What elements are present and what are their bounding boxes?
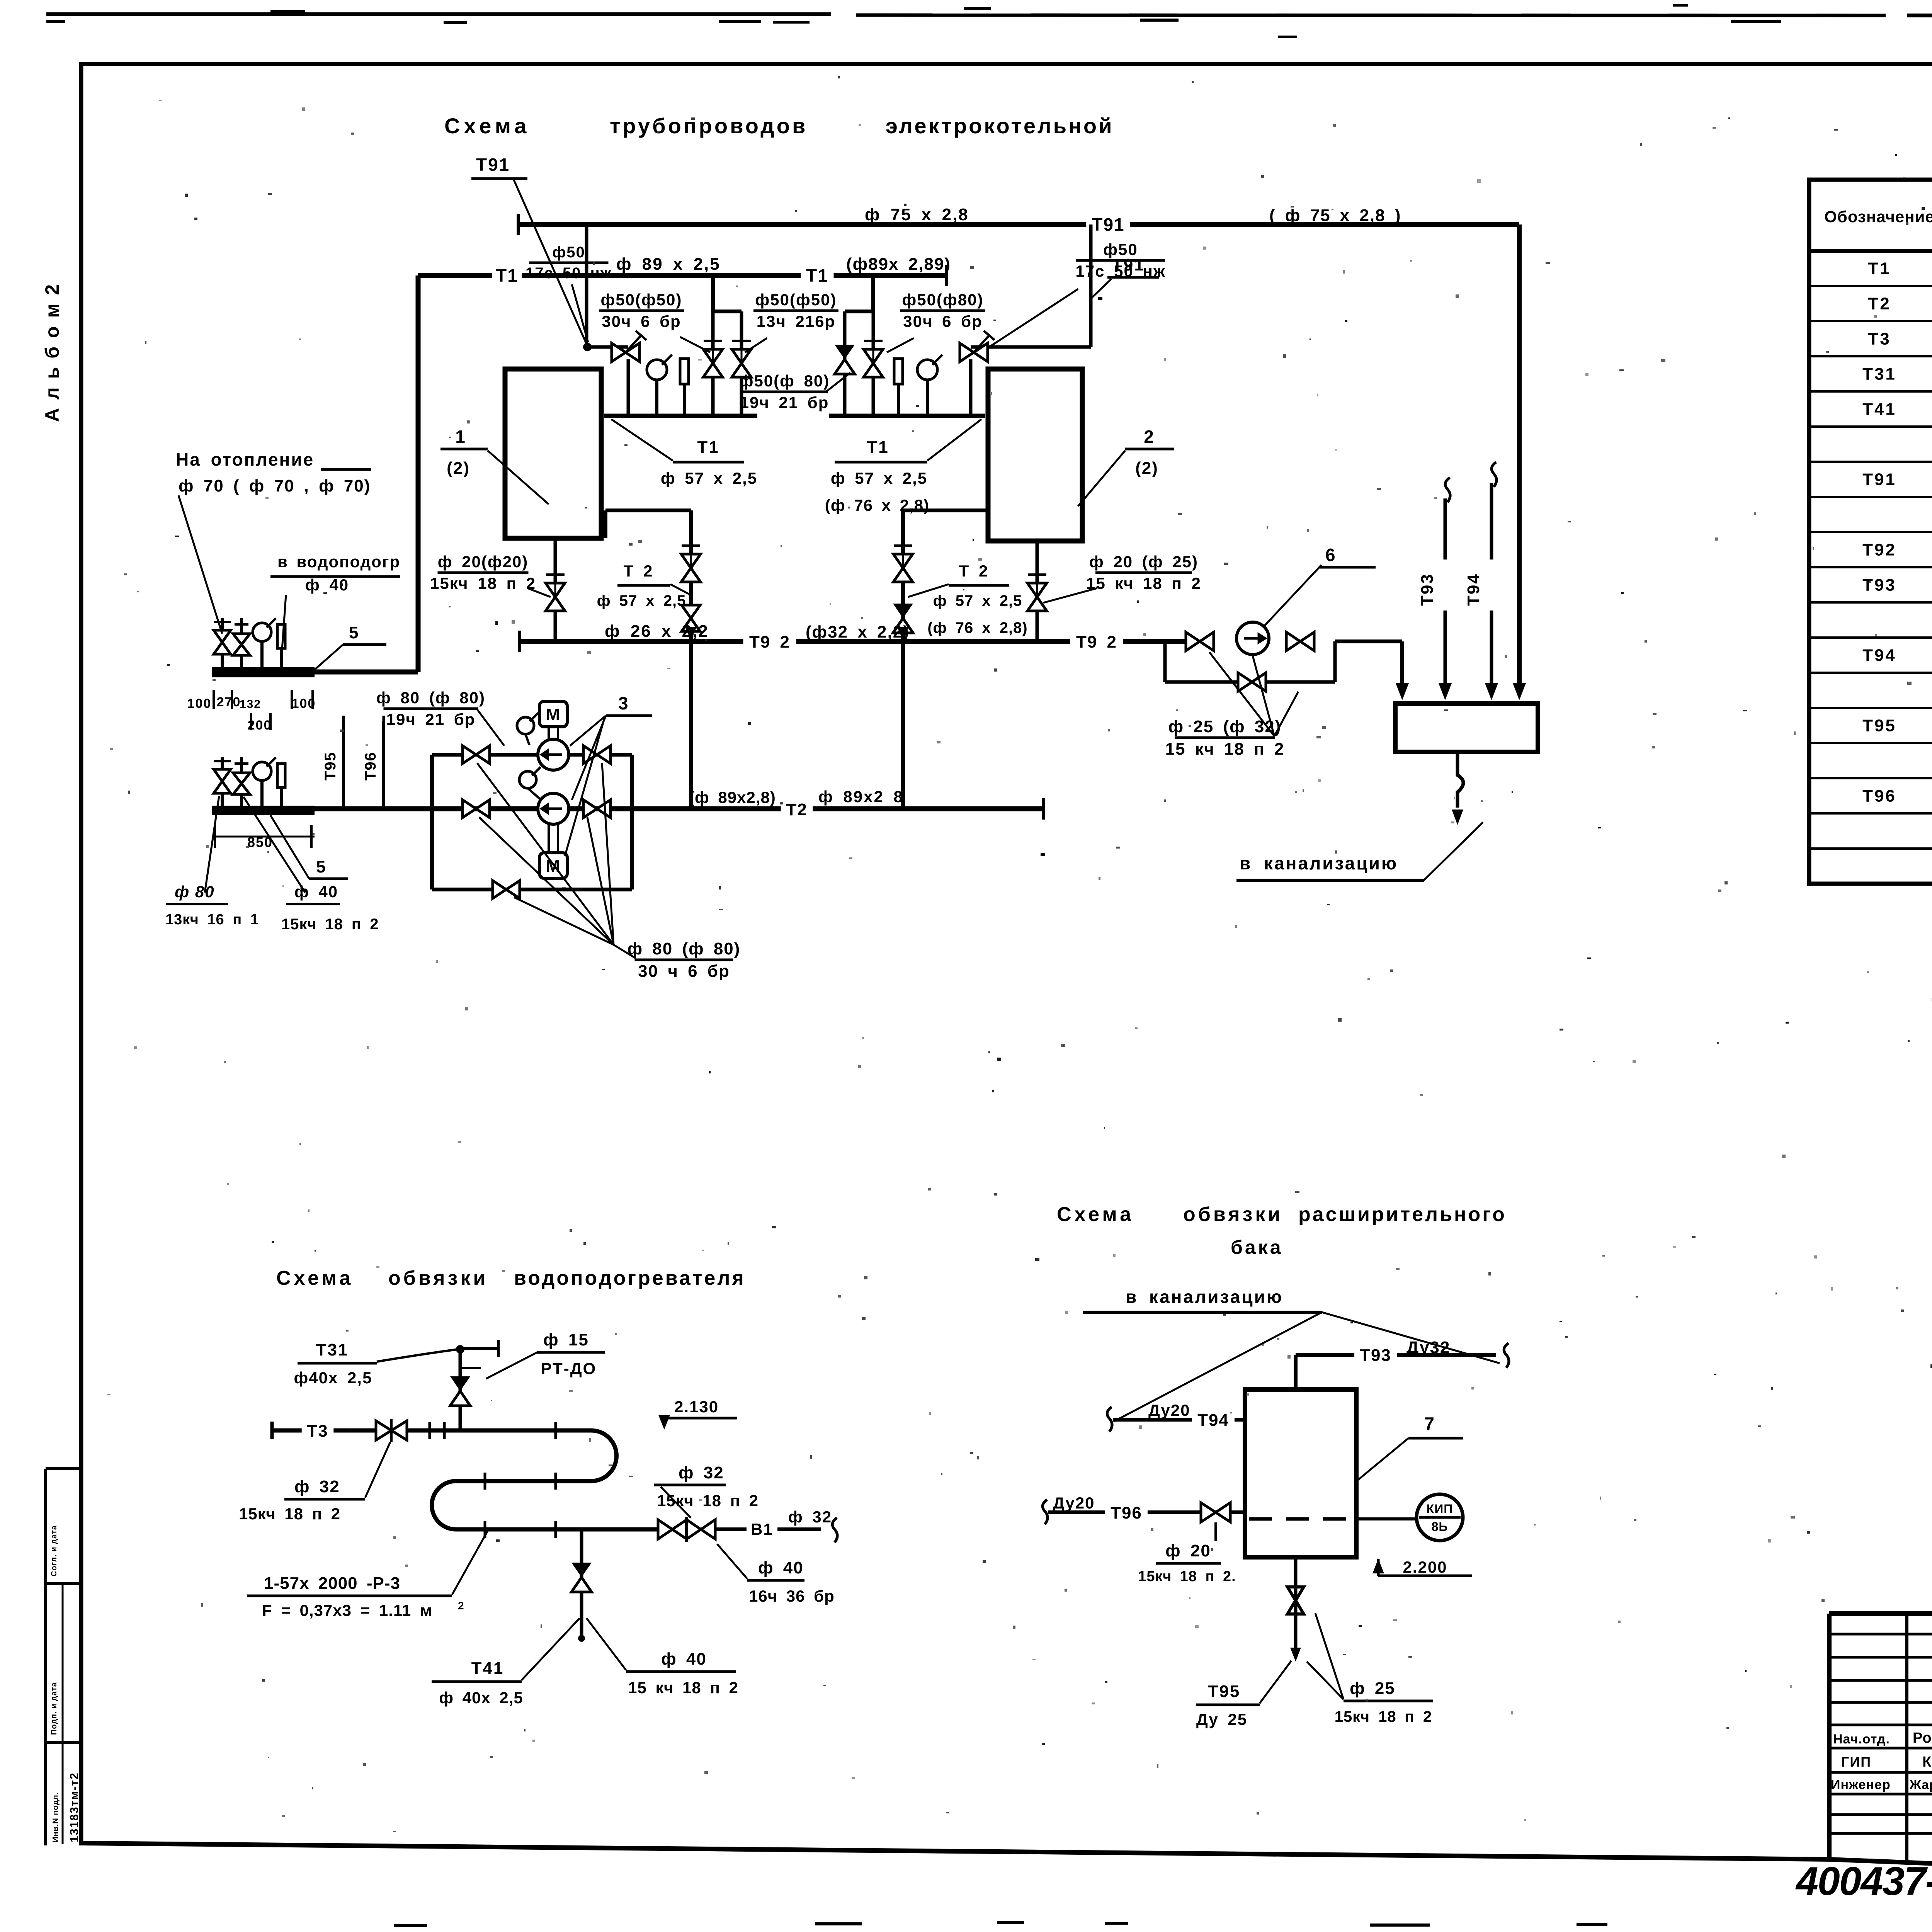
label phi89 on T1 [616, 255, 721, 274]
label phi89-2 on T1 [846, 255, 951, 274]
tank water level [1249, 1517, 1352, 1521]
svg-text:Т91: Т91 [476, 155, 510, 175]
heating manifold valves [214, 622, 250, 655]
gauge boiler2 [917, 355, 942, 416]
riser b2 a [835, 311, 855, 416]
label phi32 on T92 [806, 622, 910, 641]
thermometer boiler2 [894, 359, 903, 416]
label T95 du25 [1196, 1661, 1291, 1728]
svg-text:ф 89х2 8: ф 89х2 8 [818, 787, 904, 806]
svg-text:2: 2 [458, 1600, 465, 1612]
wire T92 to tank [1335, 641, 1409, 700]
boiler 1 item label 1/(2) [440, 427, 549, 504]
svg-text:ф 32: ф 32 [679, 1463, 724, 1482]
boiler2 instrument manifold [829, 414, 985, 418]
label phi25(f32) pump [1165, 652, 1298, 759]
svg-text:8Ь: 8Ь [1432, 1520, 1448, 1534]
table row line 12 [1809, 672, 1932, 674]
pipe list table frame [1809, 180, 1932, 884]
table row 3 content [1868, 330, 1932, 349]
svg-text:Ду20: Ду20 [1148, 1401, 1190, 1419]
coil right bend [591, 1430, 617, 1481]
svg-text:Т94: Т94 [1464, 573, 1483, 606]
wire T2 [311, 798, 1043, 820]
label phi89-2 on T2 [818, 787, 904, 806]
svg-text:Инженер: Инженер [1831, 1777, 1891, 1792]
table row 14 content [1862, 716, 1932, 735]
svg-text:ф 25: ф 25 [1350, 1679, 1395, 1698]
table row line 10 [1809, 601, 1932, 604]
svg-text:ф50(ф50): ф50(ф50) [601, 291, 682, 309]
svg-text:F = 0,37х3 = 1.11 м: F = 0,37х3 = 1.11 м [262, 1601, 432, 1619]
label T93 tank [1354, 1338, 1464, 1366]
pump 6 bypass [1165, 641, 1335, 691]
wire boiler1 drain [546, 538, 565, 641]
svg-text:ф 32: ф 32 [294, 1477, 340, 1496]
coil left bend [432, 1481, 456, 1529]
label elev 2.130 [658, 1398, 737, 1430]
svg-text:Т92: Т92 [1862, 541, 1896, 560]
table row 2 content [1868, 294, 1932, 313]
svg-text:( ф 75 х 2,8 ): ( ф 75 х 2,8 ) [1269, 206, 1401, 225]
heating manifold risers [222, 618, 281, 667]
hot water manifold bar [212, 806, 315, 815]
label T91 top-left with leader [471, 155, 586, 342]
svg-text:Т3: Т3 [307, 1422, 328, 1440]
svg-text:Схема: Схема [276, 1267, 354, 1289]
svg-text:30ч 6 бр: 30ч 6 бр [903, 312, 982, 330]
label elev 2.200 [1372, 1558, 1472, 1576]
pump block bottom valve [493, 881, 520, 898]
sheet border outer top [46, 14, 1932, 16]
svg-text:15 кч 18 п 2: 15 кч 18 п 2 [628, 1679, 738, 1697]
label phi32 right out [788, 1508, 832, 1526]
hot water manifold gauge [253, 757, 276, 781]
label 6 [1320, 545, 1376, 567]
label 5 lower [270, 815, 348, 879]
svg-text:400437-02: 400437-02 [1795, 1859, 1932, 1904]
motor top [539, 701, 567, 739]
label T96 rotated [362, 752, 379, 781]
table row line 5 [1809, 425, 1932, 428]
svg-text:Т93: Т93 [1360, 1346, 1391, 1365]
label phi25 15kch [1307, 1613, 1433, 1725]
coil level 1 [272, 1422, 591, 1439]
table row line 9 [1809, 566, 1932, 568]
svg-text:Ду32: Ду32 [1406, 1338, 1450, 1357]
signal pipe T94 [1485, 462, 1498, 700]
tank drain to sewer [1452, 752, 1463, 825]
label phi20(f20) left [430, 553, 551, 597]
svg-text:Т31: Т31 [316, 1340, 349, 1359]
svg-text:А л ь б о м 2: А л ь б о м 2 [41, 283, 63, 422]
svg-text:Т95: Т95 [1862, 716, 1896, 735]
main schematic title [444, 114, 1114, 138]
label phi40 15kch [243, 797, 379, 933]
svg-text:Схема: Схема [444, 114, 530, 138]
table row 12 content [1862, 646, 1932, 665]
signature row gip [1841, 1752, 1932, 1770]
pump block enclosure [432, 755, 632, 889]
svg-text:обвязки: обвязки [1183, 1203, 1283, 1226]
heating manifold bar [212, 667, 315, 677]
coil level 3 [456, 1527, 658, 1532]
label T92 on line 2 [1070, 633, 1123, 652]
svg-text:Ковалев: Ковалев [1922, 1754, 1932, 1770]
left margin stamp text 3 [51, 1772, 81, 1842]
label phi26 on T92 [605, 622, 709, 641]
svg-text:2: 2 [1144, 427, 1155, 447]
svg-text:13183тм-т2: 13183тм-т2 [68, 1772, 81, 1842]
table row line 13 [1809, 707, 1932, 709]
svg-text:15кч 18 п 2: 15кч 18 п 2 [239, 1505, 340, 1523]
coil section ticks [430, 1422, 556, 1538]
svg-text:ф 57 х 2,5: ф 57 х 2,5 [831, 469, 927, 487]
svg-text:Т1: Т1 [1868, 259, 1891, 278]
svg-text:Ду 25: Ду 25 [1196, 1710, 1247, 1728]
label v kanalizaciyu tank [1083, 1287, 1500, 1422]
gauge top [517, 713, 538, 745]
svg-text:На отопление: На отопление [176, 449, 314, 469]
label T91 on line [1086, 214, 1130, 235]
svg-text:5: 5 [349, 623, 359, 642]
label phi50(f80) 19ch21br centre [739, 372, 850, 412]
svg-text:водоподогревателя: водоподогревателя [514, 1267, 746, 1289]
label T96 tank [1049, 1494, 1148, 1523]
pump top [538, 739, 569, 770]
label phi20(f25) right [1043, 553, 1201, 603]
label phi89-1 on T2 [689, 788, 776, 806]
svg-text:ф 75 х 2,8: ф 75 х 2,8 [865, 205, 969, 224]
label phi75-2 on T91 [1269, 206, 1401, 225]
pipe list table header row line [1809, 249, 1932, 253]
label 3 with leaders [565, 693, 652, 856]
svg-text:Схема: Схема [1057, 1203, 1134, 1226]
svg-text:трубопроводов: трубопроводов [610, 114, 808, 138]
heating manifold dims [187, 695, 316, 733]
riser b1 a [703, 311, 723, 416]
hot water manifold risers [222, 757, 281, 806]
boiler 2 item label 2/(2) [1078, 427, 1174, 506]
label T2 phi57 right [908, 562, 1028, 636]
svg-text:132: 132 [240, 698, 261, 711]
pump unit 6 right valve [1286, 632, 1314, 651]
handwritten archive number [1795, 1859, 1932, 1904]
svg-text:ф 20(ф20): ф 20(ф20) [438, 553, 529, 571]
gauge boiler1 [647, 355, 672, 416]
svg-text:М: М [546, 705, 561, 724]
svg-text:ф 20 (ф 25): ф 20 (ф 25) [1089, 553, 1198, 571]
svg-text:Т93: Т93 [1862, 576, 1896, 595]
svg-text:электрокотельной: электрокотельной [886, 114, 1114, 138]
wire boiler2 drain [1027, 541, 1047, 641]
label 7 with leader [1357, 1413, 1463, 1481]
svg-text:Т96: Т96 [1111, 1503, 1142, 1522]
svg-text:Т1: Т1 [867, 438, 889, 457]
title block signature columns [1907, 1614, 1932, 1871]
boiler1 instrument manifold [604, 414, 757, 418]
label phi80 19ch21br [376, 689, 504, 746]
svg-text:Т1: Т1 [697, 438, 719, 457]
svg-text:Т31: Т31 [1862, 365, 1896, 384]
gauge mid [519, 767, 541, 800]
table row 4 content [1862, 365, 1932, 384]
heater outlet valves [658, 1517, 715, 1542]
sheet border inner top [79, 62, 1932, 66]
svg-text:ф 26 х 2,2: ф 26 х 2,2 [605, 622, 709, 641]
svg-text:ф 40: ф 40 [758, 1558, 804, 1577]
svg-text:ф 80: ф 80 [175, 883, 215, 901]
svg-text:ф50(ф80): ф50(ф80) [902, 291, 984, 309]
wire T95 riser [342, 716, 345, 809]
svg-text:обвязки: обвязки [388, 1267, 488, 1289]
table row line 2 [1809, 320, 1932, 322]
wire T91 header [518, 214, 1519, 235]
label phi50(f50) 13ch216r [745, 291, 838, 352]
wire T1 [418, 265, 947, 286]
svg-text:19ч 21 бр: 19ч 21 бр [740, 393, 829, 412]
label T1 on line 1 [492, 265, 522, 286]
label T1 phi57 left [611, 419, 757, 487]
table row 7 content [1862, 470, 1932, 489]
heating manifold dim ticks [214, 690, 313, 730]
signature row engineer [1831, 1777, 1932, 1792]
svg-text:ф50(ф50): ф50(ф50) [755, 291, 837, 309]
svg-text:Т41: Т41 [471, 1659, 504, 1678]
outlet line B1 [715, 1518, 837, 1543]
svg-text:Т93: Т93 [1418, 573, 1437, 606]
wire b1 return drop [681, 510, 701, 809]
wire T96 riser [382, 716, 385, 809]
valve safety boiler1 [612, 331, 646, 362]
svg-text:(2): (2) [447, 459, 470, 478]
svg-text:Роменский: Роменский [1913, 1730, 1932, 1746]
dim 850 [212, 825, 315, 850]
label na otoplenie [176, 449, 371, 634]
svg-text:в канализацию: в канализацию [1126, 1287, 1283, 1307]
label T31 phi40 [294, 1340, 458, 1387]
svg-text:Т3: Т3 [1868, 330, 1891, 349]
riser safety to manifold b2 [969, 359, 973, 416]
valve safety boiler2 [960, 331, 995, 362]
pump 6 [1236, 565, 1321, 655]
svg-text:5: 5 [316, 857, 326, 876]
svg-text:ГИП: ГИП [1841, 1754, 1871, 1770]
overflow T93 line [1296, 1343, 1509, 1389]
label T1 on line 2 [801, 265, 833, 286]
bottom margin scan dashes [394, 1921, 1607, 1927]
coil level 2 [456, 1479, 591, 1483]
table row 5 content [1862, 400, 1932, 419]
svg-text:2.200: 2.200 [1403, 1558, 1447, 1576]
svg-text:(ф 89х2,8): (ф 89х2,8) [689, 788, 776, 806]
svg-text:19ч 21 бр: 19ч 21 бр [386, 710, 476, 728]
label phi50(f50) 30ch6br left [599, 291, 710, 352]
album label [41, 283, 63, 422]
svg-text:1-57х 2000 -Р-3: 1-57х 2000 -Р-3 [264, 1574, 400, 1593]
pump unit 6 left valve [1186, 632, 1214, 651]
heater size label [247, 1531, 488, 1619]
pump block top row valves [463, 746, 611, 764]
table row 1 content [1868, 259, 1932, 278]
svg-text:расширительного: расширительного [1298, 1203, 1507, 1226]
svg-text:15кч 18 п 2: 15кч 18 п 2 [1335, 1708, 1432, 1725]
svg-text:в водоподогр: в водоподогр [277, 553, 400, 571]
svg-text:Т1: Т1 [806, 265, 828, 286]
svg-text:в канализацию: в канализацию [1240, 853, 1398, 873]
label k vodopodogr [270, 553, 400, 649]
circulation T96 line [1043, 1500, 1245, 1524]
drain collection tank [1395, 704, 1538, 752]
label phi40 16ch36br [717, 1544, 835, 1605]
label T3 on line [302, 1422, 334, 1441]
svg-text:15кч 18 п 2: 15кч 18 п 2 [657, 1492, 759, 1510]
hot water manifold thermometer [277, 764, 285, 787]
svg-text:Т41: Т41 [1862, 400, 1896, 419]
svg-text:ф 40: ф 40 [661, 1650, 707, 1668]
left margin stamp text 1 [50, 1525, 58, 1577]
wire T91 drop to tank [1513, 224, 1526, 700]
pump mid [538, 793, 569, 824]
label phi75 on T91 [865, 205, 969, 224]
svg-text:Т9 2: Т9 2 [1076, 633, 1117, 651]
svg-text:6: 6 [1325, 545, 1336, 565]
svg-text:Т2: Т2 [786, 800, 807, 819]
svg-text:ф50(ф 80): ф50(ф 80) [739, 372, 830, 390]
motor bottom [539, 824, 567, 878]
signature row nachotd [1833, 1725, 1932, 1747]
svg-text:(ф 76 х 2,8): (ф 76 х 2,8) [927, 619, 1027, 636]
sheet border bottom left segment [81, 1843, 1830, 1859]
boiler 1 [505, 369, 601, 538]
svg-text:(ф 76 х 2,8): (ф 76 х 2,8) [825, 496, 929, 514]
riser b2 b [864, 311, 883, 416]
label phi32 15kch left [239, 1442, 390, 1523]
sheet border inner left [79, 64, 83, 1845]
svg-text:Подп. и дата: Подп. и дата [50, 1682, 58, 1735]
table row 16 content [1862, 787, 1932, 806]
top margin scan dashes [46, 4, 1932, 38]
svg-text:270: 270 [217, 695, 241, 709]
svg-text:Т91: Т91 [1092, 214, 1124, 235]
svg-text:ф 15: ф 15 [543, 1330, 589, 1349]
svg-text:Т1: Т1 [496, 265, 518, 286]
label phi50(f80) 30ch6br right [887, 291, 985, 352]
table row line 14 [1809, 742, 1932, 744]
svg-text:ф 89 х 2,5: ф 89 х 2,5 [616, 255, 721, 274]
label T1 phi57 right [825, 419, 981, 514]
svg-text:бака: бака [1231, 1236, 1283, 1258]
signal T94 line [1107, 1407, 1245, 1432]
svg-text:200: 200 [248, 718, 272, 733]
pump block mid row valves [463, 800, 611, 818]
svg-text:ф 32: ф 32 [788, 1508, 832, 1526]
label phi40 15kch drain [587, 1618, 738, 1697]
left margin stamp text 2 [50, 1682, 58, 1735]
label T91 right with leader [1092, 255, 1159, 298]
table row line 15 [1809, 777, 1932, 779]
label phi20 tank [1138, 1522, 1236, 1585]
wire T91 drop right [971, 224, 1091, 347]
node T91-valve junction [583, 343, 628, 351]
wire T1 left drop to manifold [311, 276, 418, 672]
label B1 [747, 1520, 777, 1539]
svg-text:Т95: Т95 [322, 752, 339, 781]
water heater title [276, 1267, 746, 1289]
left margin stamp strip [46, 1469, 81, 1845]
svg-text:Согл. и дата: Согл. и дата [50, 1525, 58, 1577]
label T94 tank [1144, 1401, 1235, 1430]
expansion tank title [1057, 1203, 1507, 1258]
boiler 2 [988, 369, 1082, 541]
svg-text:7: 7 [1424, 1413, 1435, 1434]
regulator riser [450, 1340, 498, 1430]
table row line 7 [1809, 496, 1932, 498]
table row 9 content [1862, 541, 1932, 560]
svg-text:Т 2: Т 2 [959, 562, 989, 580]
svg-text:РТ-ДО: РТ-ДО [541, 1359, 597, 1378]
table row line 17 [1809, 847, 1932, 850]
wire b1 return elbow [605, 510, 691, 538]
label phi50 17s50nzh right [989, 240, 1166, 347]
title block signature rows [1829, 1634, 1932, 1833]
label 5 upper [314, 623, 386, 670]
heating manifold gauge [253, 618, 276, 641]
svg-text:КИП: КИП [1427, 1502, 1453, 1516]
header b2 [845, 310, 873, 313]
table row 10 content [1862, 576, 1932, 595]
instrument KIP [1356, 1494, 1463, 1541]
label T92 on line 1 [743, 633, 796, 652]
pipe list header labels [1824, 204, 1932, 226]
svg-text:100: 100 [187, 696, 212, 711]
svg-text:15кч 18 п 2: 15кч 18 п 2 [430, 574, 536, 592]
svg-text:ф40х 2,5: ф40х 2,5 [294, 1369, 372, 1387]
label phi15 RT-DO [486, 1330, 605, 1379]
tank drain line [1287, 1557, 1304, 1662]
svg-text:3: 3 [618, 693, 629, 713]
hot water manifold valves [214, 761, 250, 794]
svg-text:13кч 16 п 1: 13кч 16 п 1 [165, 912, 259, 928]
svg-text:ф 57 х 2,5: ф 57 х 2,5 [933, 592, 1022, 609]
svg-text:Т2: Т2 [1868, 294, 1891, 313]
svg-text:13ч 216р: 13ч 216р [757, 312, 836, 330]
table row line 6 [1809, 461, 1932, 463]
svg-text:Т96: Т96 [362, 752, 379, 781]
svg-text:Нач.отд.: Нач.отд. [1833, 1732, 1890, 1747]
svg-text:Обозначение: Обозначение [1824, 207, 1932, 226]
wire b2 return elbow [903, 510, 988, 541]
table row line 11 [1809, 636, 1932, 639]
expansion tank vessel [1245, 1389, 1356, 1557]
svg-text:В1: В1 [751, 1520, 773, 1538]
svg-text:ф 80 (ф 80): ф 80 (ф 80) [376, 689, 485, 707]
svg-text:30 ч 6 бр: 30 ч 6 бр [638, 962, 730, 981]
svg-text:Т91: Т91 [1112, 255, 1145, 274]
svg-text:15кч 18 п 2.: 15кч 18 п 2. [1138, 1568, 1236, 1585]
wire T1 drop to header b2 [871, 276, 875, 311]
label T94 rotated [1464, 560, 1498, 611]
label T95 rotated [322, 752, 339, 781]
svg-text:ф 70 ( ф 70 , ф 70): ф 70 ( ф 70 , ф 70) [179, 476, 371, 495]
svg-text:15 кч 18 п 2: 15 кч 18 п 2 [1165, 740, 1285, 759]
svg-text:ф50: ф50 [552, 244, 585, 261]
svg-text:Т 2: Т 2 [624, 562, 653, 580]
svg-text:Т96: Т96 [1862, 787, 1896, 806]
wire b2 return drop [893, 510, 913, 809]
svg-text:17с 50 нж: 17с 50 нж [526, 265, 612, 282]
label phi50 17s50nzh left [526, 244, 612, 342]
